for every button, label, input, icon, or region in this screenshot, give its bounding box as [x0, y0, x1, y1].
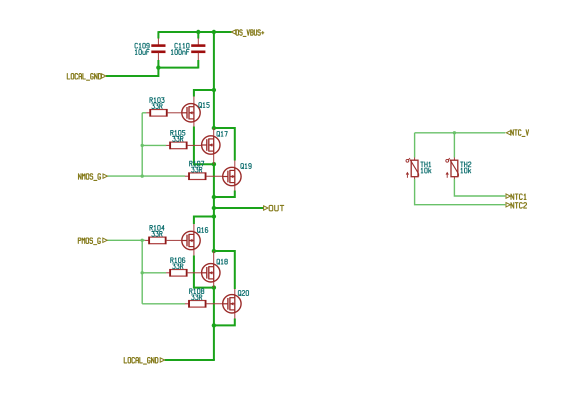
junction caps bottom	[156, 65, 160, 69]
thermistor TH2	[446, 158, 471, 180]
wire C110 top stub	[197, 31, 199, 38]
wire LOCAL_GND top	[106, 67, 158, 76]
wire left vertical bottom group	[141, 240, 143, 303]
transistor Q20	[223, 289, 249, 319]
resistor R105	[166, 130, 202, 149]
resistor R107	[185, 161, 223, 180]
junction TH2 top	[453, 131, 456, 134]
label NTC1	[506, 194, 526, 200]
wire PMOS_G row	[107, 239, 145, 241]
wire Q15 drain jog	[194, 90, 214, 97]
wire Q19 source jog	[214, 191, 235, 198]
wire TH1 top drop	[414, 133, 416, 158]
junction R106 tap	[141, 271, 144, 274]
wire NMOS_G row	[107, 175, 185, 177]
junction Q16 branch	[212, 214, 216, 218]
wire TH2 top drop	[453, 133, 455, 158]
junction Q18 drain	[212, 249, 216, 253]
label LOCAL_GND bottom	[124, 358, 164, 365]
wire Q15 source down	[194, 127, 214, 165]
transistor Q17	[202, 128, 228, 164]
wire C109 bottom stub	[157, 60, 159, 68]
label NTC_V	[506, 130, 528, 137]
junction NMOS_G tap	[141, 174, 144, 177]
wire C109 top stub	[157, 31, 159, 38]
junction C110 top rail	[196, 30, 200, 34]
junction PMOS_G tap	[141, 239, 144, 242]
junction sources top	[212, 162, 216, 166]
wire caps bottom join	[158, 67, 198, 69]
wire stub to R103	[142, 112, 146, 114]
label OUT	[264, 205, 284, 210]
wire stub to R108	[142, 303, 185, 305]
wire top rail OS_VBUS+	[158, 31, 231, 33]
junction Q19 source	[212, 195, 216, 199]
wire stub to R106	[142, 272, 166, 274]
label OS_VBUS+	[231, 30, 263, 37]
junction OUT node	[212, 206, 216, 210]
wire Q18 drain to Q20 drain	[214, 251, 235, 289]
resistor R104	[145, 225, 182, 244]
wire bottom rail LOCAL_GND	[165, 359, 215, 361]
wire Q20 source jog	[214, 319, 235, 326]
junction main top rail	[212, 30, 216, 34]
junction R105 tap	[141, 144, 144, 147]
wire main vertical middle	[213, 164, 215, 251]
thermistor TH1	[406, 158, 431, 180]
resistor R106	[166, 258, 202, 277]
wire Q17 drain to Q19 drain	[214, 128, 235, 161]
wire C110 bottom stub	[197, 60, 199, 69]
transistor Q16	[182, 224, 208, 256]
transistor Q18	[202, 251, 228, 288]
junction Q15 drain	[212, 88, 216, 92]
wire left vertical top group	[141, 113, 143, 176]
junction Q17 drain	[212, 126, 216, 130]
label PMOS_G	[78, 238, 107, 245]
transistor Q15	[182, 97, 209, 127]
junction sources bottom	[212, 285, 216, 289]
junction Q20 source	[212, 323, 216, 327]
capacitor C110	[171, 39, 205, 61]
wire TH2 bottom to NTC1	[454, 179, 505, 196]
transistor Q19	[223, 161, 252, 191]
wire Q16 source down	[194, 256, 214, 288]
wire main vertical lower	[213, 288, 215, 360]
wire branch to Q16 drain	[194, 217, 214, 225]
wire main vertical upper	[213, 32, 215, 128]
label NTC2	[506, 203, 526, 209]
resistor R103	[146, 98, 182, 117]
wire OUT horizontal	[214, 207, 264, 209]
label NMOS_G	[79, 174, 108, 181]
resistor R108	[185, 289, 223, 308]
capacitor C109	[135, 39, 166, 61]
label LOCAL_GND top	[67, 74, 106, 81]
wire stub to R105	[142, 144, 166, 146]
wire TH1 bottom to NTC2	[415, 179, 506, 205]
wire NTC_V top	[415, 132, 506, 134]
